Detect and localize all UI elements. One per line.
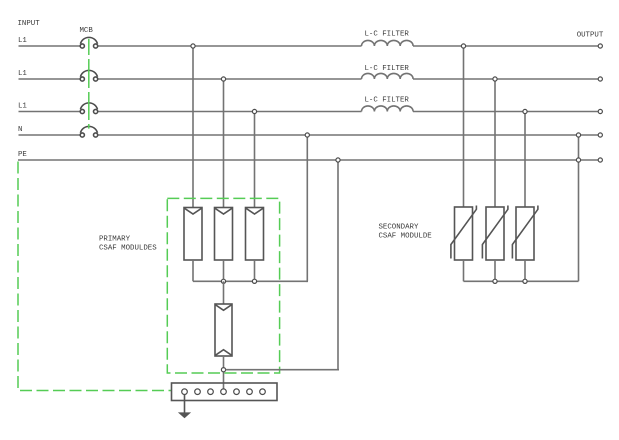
secondary ground rail: [464, 280, 579, 282]
wire stub secondary module 3 to rail: [524, 260, 526, 281]
wire drop N to primary rail: [306, 137, 309, 281]
svg-text:N: N: [18, 126, 22, 134]
node secondary rail / module 3: [523, 279, 527, 283]
wire module 4 to terminal block: [223, 356, 225, 389]
svg-text:INPUT: INPUT: [18, 20, 41, 28]
wire stub secondary module 1 to rail: [463, 260, 465, 281]
secondary module 2 (varistor): [482, 206, 508, 261]
wire L1-1 middle segment: [98, 45, 362, 47]
svg-text:L1: L1: [18, 103, 27, 111]
output terminal line 3: [598, 109, 602, 113]
wire stub module 3 to rail: [254, 260, 256, 281]
inductor L2 (line 2): [362, 73, 414, 79]
wire L1-3 right segment: [413, 111, 598, 113]
terminal 7: [260, 389, 266, 395]
green enclosure primary CSAF modules: [167, 198, 279, 373]
wire drop L1-3 to secondary module 3: [524, 114, 526, 207]
output terminal N: [598, 133, 602, 137]
node L1-2 / primary tap: [221, 77, 225, 81]
wire drop L1-3 to primary module 3: [254, 114, 256, 208]
wire junction to PE drop: [226, 369, 338, 371]
svg-text:L-C FILTER: L-C FILTER: [365, 97, 410, 105]
terminal 5: [234, 389, 240, 395]
secondary module 1 (varistor): [451, 206, 477, 261]
node N / primary rail tap: [305, 133, 309, 137]
wire rail to module 4: [223, 281, 225, 304]
MCB pole 4: [80, 126, 97, 137]
node L1-1 / secondary tap: [461, 44, 465, 48]
terminal 2: [195, 389, 201, 395]
node L1-3 / primary tap: [252, 109, 256, 113]
wire L1-1 left segment: [19, 45, 81, 47]
secondary module 3 (varistor): [512, 206, 538, 261]
primary ground rail: [193, 280, 307, 282]
svg-text:L-C FILTER: L-C FILTER: [365, 65, 410, 73]
wire stub module 2 to rail: [223, 260, 225, 281]
output terminal PE: [598, 158, 602, 162]
terminal 6: [247, 389, 253, 395]
wire L1-2 right segment: [413, 78, 598, 80]
wire L1-3 left segment: [19, 111, 81, 113]
node L1-2 / secondary tap: [493, 77, 497, 81]
MCB pole 1: [80, 37, 97, 48]
MCB pole 2: [80, 70, 97, 81]
wire L1-2 left segment: [19, 78, 81, 80]
node N / secondary drop: [576, 133, 580, 137]
wire drop N to secondary rail: [578, 137, 580, 281]
wire L1-1 right segment: [413, 45, 598, 47]
svg-text:SECONDARY: SECONDARY: [379, 223, 419, 231]
wire L1-2 middle segment: [98, 78, 362, 80]
wire drop L1-1 to secondary module 1: [463, 48, 465, 207]
svg-text:CSAF MODULDE: CSAF MODULDE: [379, 233, 433, 241]
primary module 2: [215, 208, 233, 261]
node rail / module 3: [252, 279, 256, 283]
wire drop L1-2 to primary module 2: [223, 81, 225, 207]
primary module 1: [184, 208, 202, 261]
wire stub secondary module 2 to rail: [494, 260, 496, 281]
inductor L1 (line 1): [362, 40, 414, 46]
wire drop L1-1 to primary module 1: [192, 48, 194, 207]
wire N right segment: [98, 134, 598, 136]
wire PE: [18, 159, 598, 161]
terminal 4: [221, 389, 227, 395]
svg-text:CSAF MODULDES: CSAF MODULDES: [99, 245, 157, 253]
wire drop L1-2 to secondary module 2: [494, 81, 496, 207]
node secondary rail / module 2: [493, 279, 497, 283]
svg-text:OUTPUT: OUTPUT: [577, 31, 604, 39]
node rail / module 2: [221, 279, 225, 283]
node PE / module 4 tap: [336, 158, 340, 162]
svg-text:PRIMARY: PRIMARY: [99, 236, 131, 244]
svg-text:PE: PE: [18, 151, 27, 159]
output terminal line 1: [598, 44, 602, 48]
wire drop PE to module 4 junction: [338, 162, 339, 370]
primary module 4: [215, 304, 232, 356]
svg-text:MCB: MCB: [80, 27, 94, 35]
green PE earth wire: [18, 162, 172, 391]
wire N left segment: [19, 134, 81, 136]
terminal 3: [208, 389, 214, 395]
svg-text:L1: L1: [18, 70, 27, 78]
wire stub module 1 to rail: [192, 260, 194, 281]
wire L1-3 middle segment: [98, 111, 362, 113]
MCB gang link (green dashed): [88, 39, 90, 129]
terminal 1: [182, 389, 188, 395]
inductor L3 (line 3): [362, 106, 414, 112]
svg-text:L-C FILTER: L-C FILTER: [365, 30, 410, 38]
svg-text:L1: L1: [18, 37, 27, 45]
node module4 / PE link: [221, 368, 225, 372]
primary module 3: [246, 208, 264, 261]
ground arrow: [178, 412, 191, 418]
node L1-3 / secondary tap: [523, 109, 527, 113]
node PE / secondary drop: [576, 158, 580, 162]
MCB pole 3: [80, 103, 97, 114]
ground stem: [184, 395, 186, 413]
terminal block: [172, 383, 278, 401]
output terminal line 2: [598, 77, 602, 81]
node L1-1 / primary tap: [191, 44, 195, 48]
